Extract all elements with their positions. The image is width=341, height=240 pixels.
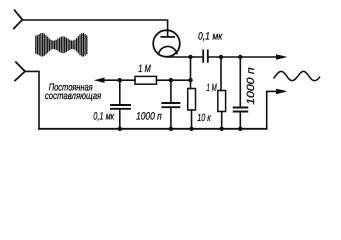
tube anode plate: [161, 30, 174, 37]
input terminal top (chevron): [14, 10, 23, 28]
capacitor C1 0,1 mk (series, top): [203, 50, 208, 61]
node: junction dot C4 at ground: [238, 127, 242, 131]
wire: 10k resistor to ground rail: [191, 110, 193, 129]
wire: top rail from input terminal to tube anode corner: [22, 20, 167, 30]
svg-text:10 к: 10 к: [197, 112, 211, 124]
node: junction dot 10k at ground: [189, 127, 193, 131]
tube cathode: [159, 46, 177, 54]
label R3 1 М: [207, 82, 217, 94]
capacitor C2 0,1 mk (shunt): [111, 105, 130, 109]
wire: ground rail: [39, 128, 267, 130]
label C3 1000 п: [136, 111, 162, 123]
wire: vertical branch x=190.5 from rail to 10k resistor: [190, 57, 192, 89]
resistor R1 1M (horizontal box): [135, 76, 157, 84]
label R1 1 М: [138, 63, 151, 75]
resistor R3 1M (vertical box): [218, 91, 226, 112]
wire: detector output rail y=57 from tube to top output arrow: [168, 56, 277, 58]
arrow dc component (points left): [94, 78, 105, 83]
label C2 0,1 мк: [93, 110, 115, 122]
node: junction dot (119.8,80.2): [118, 78, 122, 82]
wire: branch x=222 from rail y57 down to R3: [220, 57, 222, 91]
wire: C4 to ground rail: [239, 112, 241, 129]
label C4 1000 п (vertical): [245, 67, 257, 105]
svg-text:1 М: 1 М: [207, 82, 217, 94]
capacitor C4 1000 p (shunt, right): [234, 108, 248, 112]
wire: branch x=240.3 from rail y57 down to C4: [239, 57, 241, 108]
node: junction dot (190.5,80.2): [188, 78, 192, 82]
wire: dc component line y=80 from arrow to branch x=190.5: [104, 79, 191, 81]
svg-text:0,1 мк: 0,1 мк: [93, 110, 115, 122]
resistor R2 10k (vertical box): [188, 89, 196, 111]
node: junction dot at diode load tap (190.5,57): [188, 55, 192, 59]
wire: C2 to ground rail: [119, 109, 121, 129]
node: junction dot (170.9,80.2): [169, 78, 173, 82]
node: junction dot R3 at ground (222.5,128.8): [220, 127, 224, 131]
svg-text:составляющая: составляющая: [45, 91, 102, 102]
node: junction dot C2 at ground: [118, 127, 122, 131]
arrow output bottom: [276, 89, 288, 95]
svg-text:1 М: 1 М: [138, 63, 151, 75]
node: junction dot 1M shunt (221,57): [219, 55, 223, 59]
label: Постоянная составляющая: [45, 82, 102, 102]
wire: branch x=119.8 down to C2: [119, 80, 121, 105]
capacitor C3 1000 p (shunt): [162, 103, 179, 107]
sine wave output symbol: [274, 71, 320, 80]
svg-text:1000 п: 1000 п: [136, 111, 162, 123]
wire: bottom input to ground rail: [25, 71, 39, 128]
node: junction dot C3 at ground: [169, 127, 173, 131]
wire: branch x=170.9 down to C3: [170, 80, 172, 103]
node: junction dot 1000p shunt (240.3,57): [238, 55, 242, 59]
svg-text:1000 п: 1000 п: [245, 67, 257, 105]
label R2 10 к: [197, 112, 211, 124]
arrow output top: [276, 54, 288, 60]
wire: C3 to ground rail: [170, 107, 172, 129]
label C1 0,1 мк: [198, 31, 223, 43]
vacuum-tube diode U1 envelope: [153, 30, 180, 57]
wire: ground rail up to bottom output arrow: [267, 91, 277, 128]
wire: R3 to ground rail: [221, 112, 223, 129]
input terminal bottom (chevron): [15, 62, 25, 80]
svg-text:0,1 мк: 0,1 мк: [198, 31, 223, 43]
AM modulated signal waveform: [36, 34, 87, 56]
